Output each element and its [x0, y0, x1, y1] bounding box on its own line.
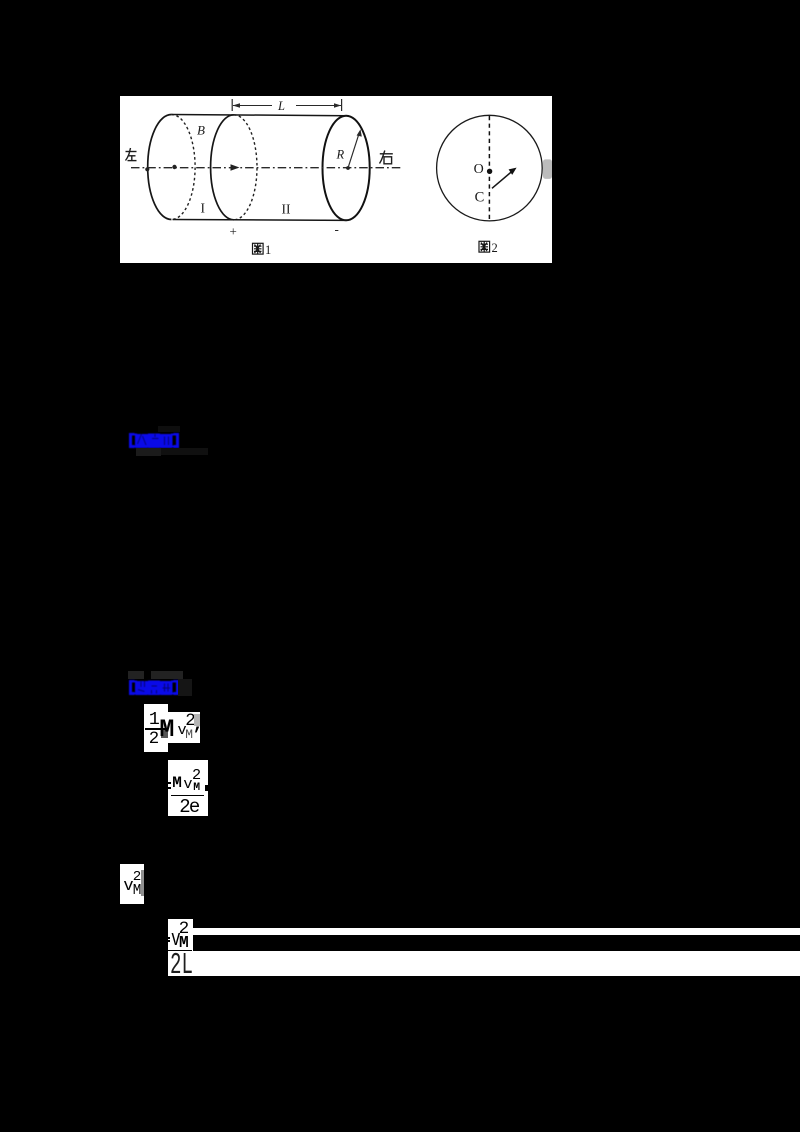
- divider ellipse between region I and II (back dashed arc): [234, 115, 257, 220]
- divider ellipse between region I and II (front solid arc): [211, 115, 234, 220]
- dimension L: right arrow segment: [296, 105, 341, 107]
- grey resize-handle tab at right edge: [543, 159, 552, 179]
- fig2 vertical dashed diameter: [488, 116, 490, 220]
- svg-text:-: -: [335, 222, 339, 237]
- formula 3 subscript M: [133, 884, 142, 898]
- formula 1 superscript 2: [185, 713, 195, 730]
- formula 1 fraction bar: [145, 728, 167, 729]
- formula 2 denominator 2e: [179, 798, 198, 817]
- axis dot at right cap centre: [346, 166, 350, 170]
- svg-text:C: C: [475, 189, 485, 205]
- jpeg shadow above blue label 2: [128, 671, 144, 679]
- formula 4 v: [171, 928, 181, 950]
- formula 4 denominator 2L: [170, 951, 193, 981]
- svg-text:L: L: [277, 99, 285, 113]
- svg-text:R: R: [336, 148, 345, 162]
- cylinder bottom edge line: [173, 219, 347, 222]
- velocity arrow from C: [492, 171, 513, 189]
- dimension L: left arrow segment: [233, 105, 272, 107]
- formula 3 v: [123, 878, 133, 895]
- formula 2 comma remnant at right edge: [205, 785, 209, 791]
- svg-text:II: II: [282, 202, 291, 217]
- cylinder right end-cap ellipse (solid): [323, 116, 370, 221]
- axis arrowhead dot in region II: [231, 164, 240, 170]
- svg-text:2: 2: [492, 241, 498, 255]
- formula 1 denominator 2: [149, 731, 159, 748]
- svg-text:O: O: [474, 162, 484, 177]
- dimension L: right tick: [341, 99, 343, 111]
- formula 1 numerator 1: [149, 711, 160, 729]
- formula 2 v: [183, 777, 192, 792]
- formula 1 v: [178, 723, 187, 738]
- formula 2 equals remnant at left edge: [167, 782, 171, 784]
- blue section label 2 (【解答】): [128, 679, 180, 697]
- formula 3: v_M^2 in small white box: [120, 864, 144, 905]
- formula 3 superscript 2: [133, 870, 142, 884]
- axis dot in region I: [172, 165, 176, 169]
- axis dot on left cap arc: [145, 167, 149, 171]
- cylinder top edge line: [171, 115, 346, 116]
- formula 4 equals remnant at left edge: [168, 937, 170, 939]
- label 左 (left): [126, 148, 137, 161]
- formula 4 subscript M: [179, 935, 189, 951]
- caption 图1: [253, 243, 264, 254]
- jpeg shadow above blue label 1: [158, 426, 180, 432]
- cylinder left end-cap ellipse (back dashed arc): [171, 115, 195, 220]
- label 右 (right): [380, 151, 393, 164]
- formula 2 superscript 2: [192, 768, 201, 783]
- formula 1 bold M: [159, 717, 174, 742]
- jpeg shadow below blue label 1: [136, 448, 161, 456]
- radius arrow R: [348, 132, 360, 169]
- figure image (white background panel with 图1 and 图2): [120, 96, 552, 263]
- formula 4 fraction bar: [168, 950, 192, 952]
- jpeg shadow right of blue label 2: [178, 679, 192, 696]
- fig2 circle: [437, 115, 543, 221]
- formula 1 grey patch under M: [161, 730, 168, 738]
- formula 2 M: [172, 775, 182, 791]
- svg-text:B: B: [197, 123, 205, 138]
- formula 2: Mv_M^2 / 2e in white box: [168, 760, 208, 816]
- formula 4: v_M^2 / 2L with long white strips: [168, 919, 193, 951]
- svg-text:I: I: [201, 201, 206, 216]
- dimension L: left tick: [231, 99, 233, 111]
- central dash-dot axis: [131, 167, 401, 169]
- formula 3 grey sliver at right edge: [141, 870, 144, 896]
- formula 1 grey patch right of sup 2: [194, 714, 200, 726]
- caption 图2: [479, 241, 490, 252]
- formula 1: (1/2)Mv_M^2 , white fragments: [144, 704, 168, 752]
- centre dot O: [487, 169, 492, 174]
- formula 2 fraction bar: [171, 795, 204, 797]
- formula 4 superscript 2: [179, 921, 190, 939]
- formula 1 subscript M: [185, 729, 193, 742]
- formula 2 subscript M: [193, 783, 200, 794]
- svg-text:1: 1: [265, 243, 271, 257]
- formula 1 comma: [193, 716, 204, 734]
- svg-text:+: +: [230, 224, 237, 239]
- cylinder left end-cap ellipse (front solid arc): [148, 115, 172, 220]
- blue section label 1 (【分析】): [128, 432, 180, 450]
